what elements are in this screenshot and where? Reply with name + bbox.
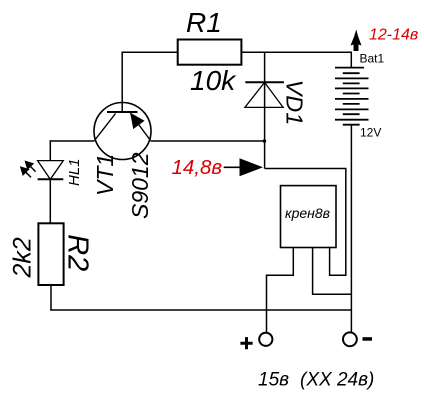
charge arrow (up) xyxy=(351,30,362,52)
label 12V xyxy=(360,126,381,140)
diode VD1 vertical wire xyxy=(264,52,266,168)
arrow pointing to 14.8v node xyxy=(224,158,263,176)
wire: vertical from top wire down to transistor base xyxy=(121,52,123,113)
transistor VT1 circle xyxy=(94,103,151,160)
svg-text:(ХХ 24в): (ХХ 24в) xyxy=(300,370,374,391)
label R1 xyxy=(186,7,222,38)
svg-text:12V: 12V xyxy=(360,126,381,140)
regulator U1 крен8в box xyxy=(281,186,337,248)
wire: down to LED xyxy=(49,140,51,161)
label 12-14в (red) xyxy=(369,27,418,44)
svg-text:14,8в: 14,8в xyxy=(172,156,223,179)
label S9012 xyxy=(127,152,153,219)
LED HL1 emission arrow 1 xyxy=(25,161,35,171)
wire: 14.8v node to regulator input (right, down, left) xyxy=(265,169,346,276)
svg-text:HL1: HL1 xyxy=(66,158,83,186)
svg-text:10k: 10k xyxy=(190,65,237,96)
wire: emitter to diode junction xyxy=(151,140,265,142)
label R2 xyxy=(61,234,93,271)
label 14,8в (red) xyxy=(172,156,223,179)
wire: regulator pin2 (gnd) to negative rail xyxy=(313,248,352,295)
battery Bat1 plates xyxy=(335,68,369,125)
plus sign xyxy=(240,337,252,349)
svg-text:12-14в: 12-14в xyxy=(369,27,418,44)
label VD1 xyxy=(282,80,308,126)
value 10k xyxy=(190,65,237,96)
svg-text:S9012: S9012 xyxy=(127,152,153,219)
wire: collector to LED corner xyxy=(50,140,94,142)
resistor R1 xyxy=(178,40,242,65)
minus sign xyxy=(363,337,373,341)
diode VD1 cathode bar xyxy=(245,81,284,83)
transistor VT1 emitter diagonal xyxy=(131,114,151,141)
wire: bottom horizontal rail xyxy=(50,309,351,311)
wire: LED to R2 xyxy=(49,179,51,223)
svg-text:Bat1: Bat1 xyxy=(360,52,385,66)
LED HL1 emission arrow 2 xyxy=(21,167,31,177)
diode VD1 triangle xyxy=(245,82,283,107)
wire: top horizontal from base junction to battery xyxy=(122,51,351,53)
terminal minus circle xyxy=(343,332,357,346)
label Bat1 xyxy=(360,52,385,66)
LED HL1 cathode bar xyxy=(38,178,64,180)
resistor R2 xyxy=(38,223,63,285)
svg-text:VD1: VD1 xyxy=(282,80,308,126)
label VT1 xyxy=(92,154,118,196)
transistor VT1 emitter arrow (PNP) xyxy=(131,114,144,129)
svg-text:15в: 15в xyxy=(258,370,289,391)
svg-text:R1: R1 xyxy=(186,7,222,38)
svg-text:2k2: 2k2 xyxy=(8,237,36,278)
transistor VT1 base bar xyxy=(107,111,138,113)
svg-text:R2: R2 xyxy=(61,234,93,271)
battery Bat1 wire top xyxy=(350,52,352,68)
transistor VT1 collector diagonal xyxy=(95,114,116,141)
LED HL1 triangle xyxy=(38,161,64,180)
wire: regulator pin1 (output) to plus terminal xyxy=(267,248,294,333)
label HL1 xyxy=(66,158,83,186)
svg-text:VT1: VT1 xyxy=(92,154,118,196)
label крен8в xyxy=(285,205,330,221)
value 2k2 xyxy=(8,237,36,278)
terminal plus circle xyxy=(259,333,272,346)
label 15в (ХХ 24в) xyxy=(258,370,374,391)
junction node at diode branch xyxy=(263,139,267,143)
svg-text:крен8в: крен8в xyxy=(285,205,330,221)
wire: battery negative down to minus terminal xyxy=(350,125,352,333)
wire: R2 to bottom rail xyxy=(50,285,52,310)
